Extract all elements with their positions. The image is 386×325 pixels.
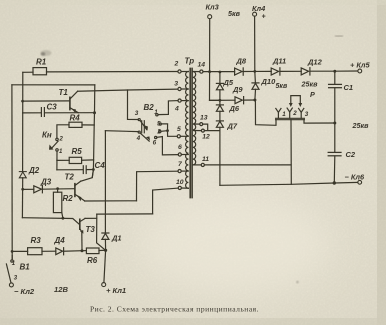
svg-text:Кл3: Кл3 bbox=[206, 3, 220, 12]
diode D10 (vertical on Kl4 column) bbox=[252, 83, 259, 100]
transformer tap 13 bbox=[194, 123, 203, 126]
svg-text:1: 1 bbox=[282, 111, 286, 118]
transistor T1 bbox=[70, 91, 78, 113]
svg-text:Д1: Д1 bbox=[111, 233, 122, 242]
wire: R4 left lead and button riser bbox=[57, 125, 69, 138]
node: junction dot C4 on collector rail bbox=[92, 168, 95, 171]
transformer tap 5 bbox=[177, 135, 188, 138]
svg-text:3: 3 bbox=[305, 111, 309, 118]
svg-text:Рис. 2. Схема электрическая пр: Рис. 2. Схема электрическая принципиальн… bbox=[90, 306, 259, 314]
wire: bottom negative line to Kl6 bbox=[220, 182, 358, 185]
wire: rail C2 to bottom line bbox=[333, 156, 336, 183]
spark gap electrode fork 2 bbox=[287, 108, 292, 118]
resistor R4 bbox=[69, 122, 82, 127]
transformer tap 7 bbox=[178, 170, 188, 173]
svg-text:Д10: Д10 bbox=[261, 77, 277, 86]
wire: C1/C2 rail top segment bbox=[334, 71, 336, 84]
diode D3 (horizontal, T2 base feed) bbox=[23, 186, 75, 193]
transformer Tr secondary winding (right) bbox=[193, 72, 196, 165]
wire: spark gap right electrode to 25kV rail bbox=[304, 120, 335, 123]
svg-text:11: 11 bbox=[202, 156, 209, 163]
svg-text:1: 1 bbox=[154, 109, 158, 116]
svg-text:14: 14 bbox=[198, 61, 206, 68]
wire: rail from B2 contact4 corner down through D1 to +Kl1 terminal bbox=[104, 131, 106, 283]
svg-text:2: 2 bbox=[174, 61, 179, 68]
transformer tap 3 bbox=[178, 87, 188, 90]
capacitor C2 bbox=[328, 152, 341, 155]
capacitor C4 bbox=[83, 166, 86, 174]
wire: top row to Kl5 terminal bbox=[335, 70, 358, 72]
node: junction dot R2 top on T2 base wire bbox=[56, 187, 59, 190]
svg-text:3: 3 bbox=[135, 110, 139, 117]
node: junction dot R3 wire on outer rail bbox=[11, 250, 14, 253]
svg-text:Д7: Д7 bbox=[227, 121, 238, 130]
svg-text:− Кл6: − Кл6 bbox=[345, 172, 366, 181]
svg-text:6: 6 bbox=[178, 144, 182, 151]
transformer tap 2 bbox=[178, 70, 189, 73]
node: junction dot Kl3 on top row bbox=[208, 70, 211, 73]
diode D11 bbox=[271, 68, 280, 75]
wire: B2 contact5 jog to tap5 node bbox=[161, 124, 167, 131]
svg-text:5: 5 bbox=[177, 126, 181, 133]
terminal Kl4 bbox=[253, 12, 257, 16]
switch B2 pivot contact 3 feed riser bbox=[128, 90, 139, 120]
svg-text:Д4: Д4 bbox=[54, 236, 66, 245]
wire: B2 contact6 to tap 6 bbox=[157, 137, 178, 155]
wire: tap5 drop wire bbox=[168, 131, 178, 137]
transformer tap 4 bbox=[178, 99, 188, 102]
transformer tap 14 bbox=[193, 70, 203, 73]
transformer tap 11 bbox=[194, 163, 205, 166]
wire: Kl4 down through top row to D10 bbox=[254, 16, 257, 83]
svg-text:С3: С3 bbox=[47, 103, 58, 112]
small dash mark top-right bbox=[335, 35, 343, 36]
node: junction dot R2-bottom on T3 base wire bbox=[62, 217, 65, 220]
svg-text:В2: В2 bbox=[144, 103, 155, 112]
wire: R5 right lead to collector rail bbox=[82, 159, 94, 161]
node: junction dot row2 at diode column bbox=[219, 99, 222, 102]
svg-text:25кв: 25кв bbox=[352, 121, 370, 130]
svg-text:3: 3 bbox=[174, 81, 178, 88]
resistor R6 bbox=[82, 248, 106, 254]
node: junction dot 25kV rail mid bbox=[333, 122, 336, 125]
diode D6 (vertical) bbox=[216, 105, 223, 111]
wire: spark gap centre electrode down to bottom line bbox=[290, 120, 292, 185]
wire: C3 to T1 emitter node and collector rail bbox=[45, 112, 95, 114]
wire: T3 collector drop rail down then diagonal to R6 right node bbox=[97, 214, 106, 250]
wire: diode column top from row1 bbox=[219, 72, 221, 84]
svg-text:R6: R6 bbox=[87, 256, 98, 265]
resistor R1 bbox=[33, 68, 47, 75]
wire: T3 base feed from inner rail corner (with jog into bar) bbox=[22, 218, 79, 225]
svg-text:R1: R1 bbox=[36, 58, 47, 67]
diode D12 bbox=[301, 68, 310, 75]
switch B1 bbox=[6, 256, 13, 287]
svg-text:С4: С4 bbox=[95, 161, 106, 170]
wire: R1 left lead bbox=[23, 71, 33, 73]
wire: R3 feed from outer rail bbox=[12, 250, 28, 252]
svg-text:10: 10 bbox=[176, 179, 184, 186]
transformer Tr primary winding (left) bbox=[186, 72, 189, 189]
svg-text:Д9: Д9 bbox=[232, 85, 243, 94]
svg-text:2: 2 bbox=[156, 128, 161, 135]
wire: C4 right lead to collector rail bbox=[87, 169, 94, 171]
diode D4 (horizontal) bbox=[42, 248, 82, 255]
svg-text:12: 12 bbox=[202, 133, 210, 140]
wire: tap10 horizontal wire to T3 collector riser bbox=[97, 213, 153, 215]
diode D8 bbox=[235, 68, 244, 75]
wire: column D5 to D6 bbox=[219, 90, 221, 105]
node: junction dot R6 right / D1 / +Kl1 bbox=[104, 249, 107, 252]
wire: tap10 wire corner riser bbox=[153, 188, 179, 214]
spark gap electrode fork 1 bbox=[276, 108, 281, 118]
resistor R2 (vertical) bbox=[53, 189, 63, 219]
pushbutton Kn bbox=[49, 138, 58, 151]
wire: B2 contact1 to tap 4 bbox=[158, 101, 178, 115]
wire: top feedback wire from left rail to collector rail corner bbox=[12, 84, 95, 86]
wire: inner rail below D2 down to T3 base corner bbox=[21, 178, 23, 218]
wire: B2 contact2 to tap5 node bbox=[161, 130, 168, 133]
transformer tap 12 bbox=[194, 129, 205, 132]
faint speck bottom-center-right bbox=[296, 281, 299, 284]
wire: Kl4 column down to spark gap electrode 1 bbox=[255, 100, 276, 125]
node: junction dot C2 rail on bottom line bbox=[333, 181, 336, 184]
spark gap adjuster bracket with arrows bbox=[289, 96, 302, 107]
diode D1 (vertical on +Kl1 rail) bbox=[102, 233, 109, 239]
svg-text:R2: R2 bbox=[63, 194, 74, 203]
resistor R3 bbox=[28, 248, 42, 255]
svg-text:2: 2 bbox=[292, 110, 297, 117]
node: junction dot base wire on inner rail bbox=[21, 100, 24, 103]
svg-text:Т2: Т2 bbox=[65, 173, 75, 182]
wire: R5 left lead bbox=[57, 159, 69, 161]
terminal Kl6 bbox=[358, 180, 362, 184]
switch B2 pivot contact 4 feed from rail bbox=[105, 130, 138, 133]
wire: T1 collector wire to transformer tap 3 bbox=[78, 89, 178, 91]
capacitor C3 bbox=[41, 108, 44, 117]
wire: rail C1 to C2 bbox=[334, 88, 336, 152]
node: junction dot emitter/R6/D4 bbox=[81, 249, 84, 252]
wire: top rectifier row tap14 to C1 rail corner bbox=[203, 70, 335, 72]
svg-text:Д2: Д2 bbox=[28, 166, 40, 175]
transistor T2 bbox=[75, 181, 85, 201]
wire: button lower contact down to R5 wire and C4 wire bbox=[56, 151, 58, 170]
diode D5 (vertical) bbox=[216, 83, 223, 89]
node: junction dot D3 wire on inner rail bbox=[21, 188, 24, 191]
node: junction dot emitter wire on collector rail bbox=[93, 111, 96, 114]
svg-text:Д11: Д11 bbox=[272, 56, 286, 65]
svg-text:2: 2 bbox=[59, 136, 64, 142]
svg-text:Тр: Тр bbox=[185, 56, 195, 65]
svg-text:С2: С2 bbox=[346, 150, 356, 159]
wire: tap7 riser from T2 emitter wire bbox=[137, 171, 179, 201]
svg-text:5: 5 bbox=[157, 120, 161, 127]
svg-text:R3: R3 bbox=[31, 236, 42, 245]
svg-text:+ Кл1: + Кл1 bbox=[106, 286, 126, 295]
wire: rectifier row2 bbox=[210, 99, 255, 101]
node: junction dot Kl4 on top row bbox=[253, 70, 256, 73]
capacitor C1 bbox=[329, 84, 342, 87]
wire: left outer rail (top corner to B1 switch) bbox=[11, 85, 13, 259]
wire: R1 to transformer tap 2 bbox=[47, 71, 178, 73]
switch B2 bbox=[138, 114, 161, 142]
wire: collector rail x~94.5 from top corner down to T2 collector bbox=[92, 85, 95, 178]
svg-text:12В: 12В bbox=[54, 285, 68, 294]
spark gap electrode fork 3 bbox=[299, 108, 304, 118]
svg-text:+ Кл5: + Кл5 bbox=[350, 61, 371, 70]
terminal Kl5 bbox=[358, 69, 362, 73]
resistor R5 bbox=[69, 157, 81, 163]
svg-text:+: + bbox=[262, 14, 266, 21]
svg-text:Кн: Кн bbox=[42, 131, 52, 140]
node: junction dot row2 at Kl4 column bbox=[253, 99, 256, 102]
node: junction dot column on top row bbox=[219, 71, 222, 74]
svg-text:Кл4: Кл4 bbox=[252, 4, 265, 13]
wire: column below D7 down to bottom line bbox=[219, 127, 221, 185]
wire: C4 left lead bbox=[57, 169, 83, 171]
spark gap P bar bbox=[276, 118, 305, 119]
svg-text:R4: R4 bbox=[70, 113, 81, 122]
svg-text:4: 4 bbox=[136, 135, 141, 142]
svg-text:Т1: Т1 bbox=[59, 88, 69, 97]
svg-text:25кв: 25кв bbox=[301, 80, 319, 89]
terminal Kl1 bbox=[102, 283, 106, 287]
svg-text:5кв: 5кв bbox=[276, 83, 288, 90]
transistor T3 bbox=[80, 218, 85, 233]
stain smudge top-left bbox=[41, 50, 52, 56]
wire: column D6 to D7 bbox=[219, 111, 221, 121]
transformer tap 6 bbox=[178, 153, 188, 156]
svg-text:− Кл2: − Кл2 bbox=[14, 287, 35, 296]
wire: Kl3 down to top row and row2 corner bbox=[210, 19, 220, 101]
diode D9 bbox=[235, 97, 244, 104]
svg-text:6: 6 bbox=[153, 140, 157, 147]
wire: T2 collector up to C4 node bbox=[81, 170, 94, 182]
wire: left inner rail x=22.6 (R1 left down to D2) bbox=[22, 72, 24, 171]
wire: T1 base wire from inner rail bbox=[23, 100, 70, 102]
wire: T3 collector to falling rail bbox=[85, 217, 97, 219]
svg-text:Р: Р bbox=[310, 90, 315, 99]
svg-text:13: 13 bbox=[200, 115, 208, 122]
svg-text:4: 4 bbox=[174, 106, 179, 113]
wire: tap 11 to spark gap centre column bbox=[204, 164, 291, 166]
svg-text:Д3: Д3 bbox=[40, 178, 52, 187]
svg-text:Д6: Д6 bbox=[229, 104, 240, 113]
svg-text:R5: R5 bbox=[72, 147, 83, 156]
svg-text:5кв: 5кв bbox=[228, 9, 241, 18]
svg-text:Т3: Т3 bbox=[86, 225, 96, 234]
wire: R4 right lead to collector rail bbox=[82, 124, 94, 126]
diode D7 (vertical) bbox=[216, 121, 223, 127]
wire: C3 wire from inner rail to C3 bbox=[23, 112, 41, 114]
wire: T2 emitter wire to tap7 riser bbox=[85, 200, 137, 202]
svg-text:Д8: Д8 bbox=[236, 56, 247, 65]
svg-text:Д12: Д12 bbox=[307, 57, 323, 66]
node: junction dot contacts 2/5 bbox=[166, 129, 169, 132]
wire: 13-12 series jog and feed to diode column bbox=[203, 124, 220, 131]
node: junction dot top row at C1 rail bbox=[333, 70, 336, 73]
diode D2 (vertical, on inner rail) bbox=[19, 172, 26, 178]
svg-text:С1: С1 bbox=[344, 83, 354, 92]
wire: T3 emitter down to R3/D4/R6 node bbox=[81, 232, 83, 249]
transformer Tr core bbox=[190, 68, 192, 197]
svg-text:В1: В1 bbox=[20, 263, 31, 272]
terminal Kl3 bbox=[208, 15, 212, 19]
transformer tap 10 bbox=[178, 186, 188, 189]
